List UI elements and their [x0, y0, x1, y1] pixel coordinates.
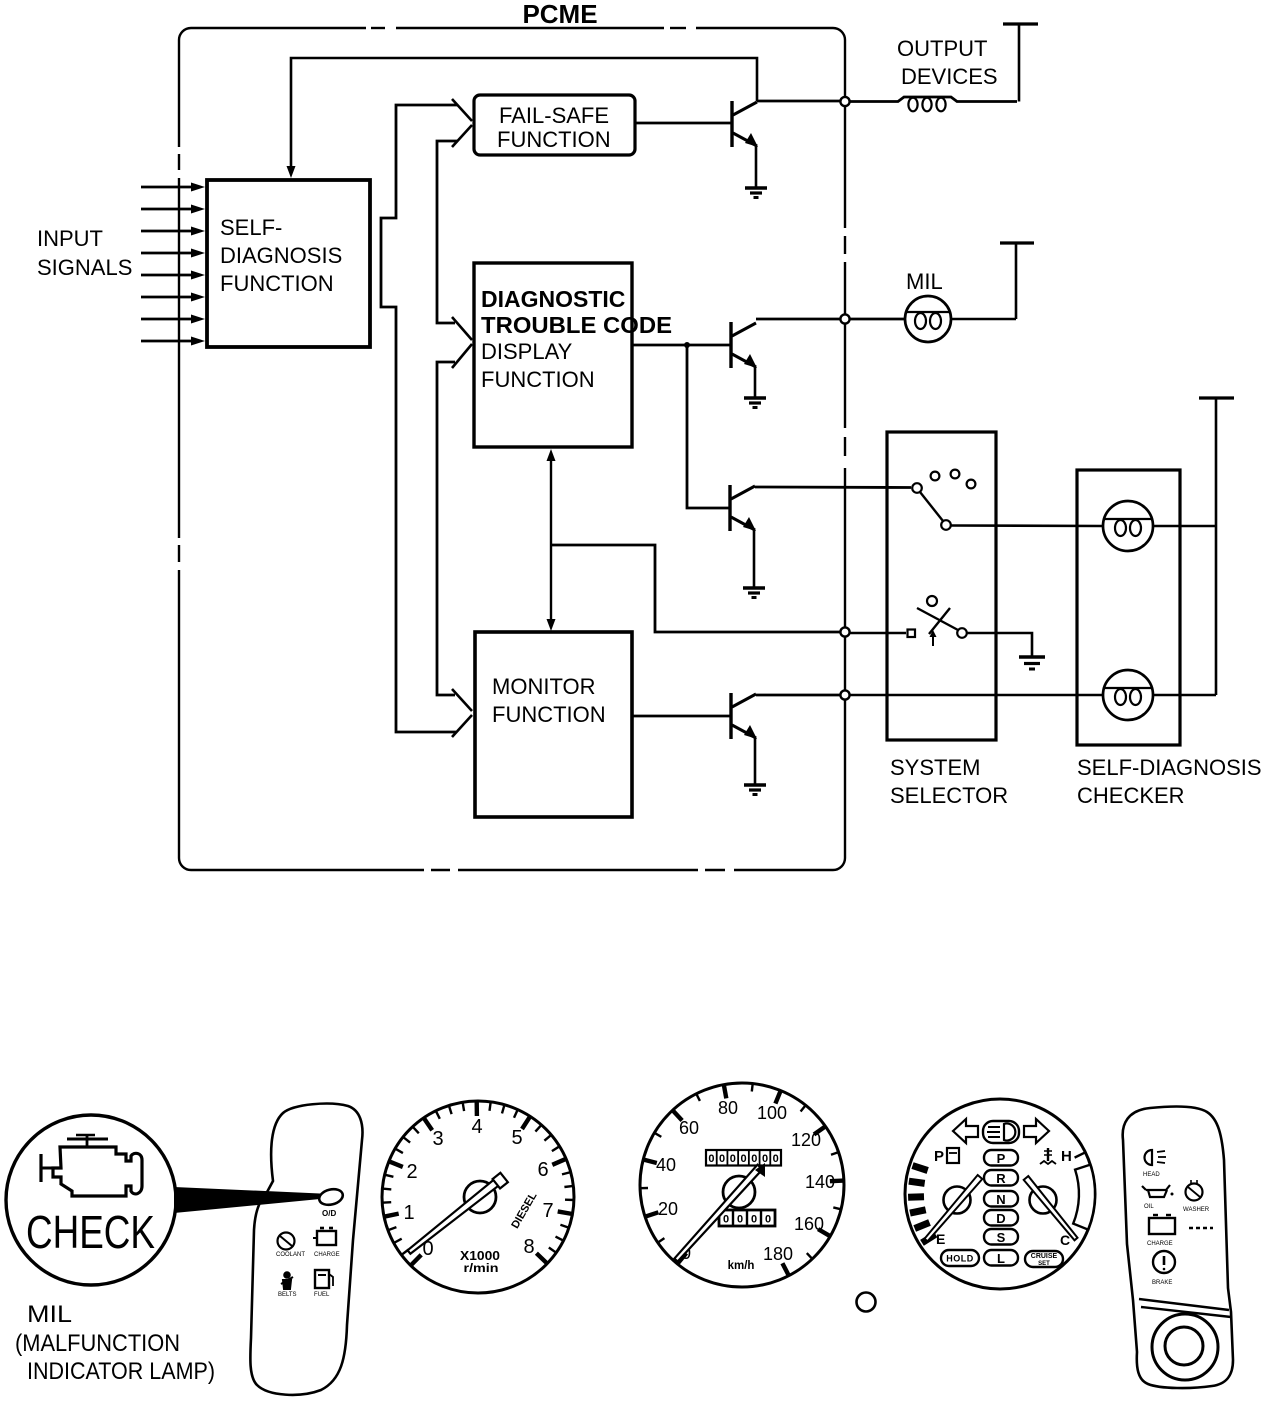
- svg-text:160: 160: [794, 1214, 824, 1234]
- speedometer hub and needle: [674, 1163, 765, 1262]
- small screw circle between gauges: [857, 1293, 876, 1312]
- svg-text:0: 0: [751, 1153, 757, 1165]
- svg-text:DIAGNOSIS: DIAGNOSIS: [220, 243, 342, 268]
- svg-text:20: 20: [658, 1199, 678, 1219]
- svg-text:O/D: O/D: [322, 1209, 336, 1218]
- divider lines on right panel: [1139, 1299, 1231, 1317]
- wire: branch from double-arrow line to selector switch S2: [551, 545, 840, 632]
- svg-text:CHARGE: CHARGE: [1147, 1241, 1173, 1247]
- wire: branch from Q2 base line down to Q3 base: [687, 345, 729, 508]
- svg-text:HOLD: HOLD: [946, 1254, 974, 1264]
- svg-text:TROUBLE CODE: TROUBLE CODE: [481, 312, 672, 338]
- warning icon: seat belt person (left panel): [278, 1272, 297, 1298]
- inductor: output device coil: [850, 97, 1017, 111]
- svg-text:2: 2: [406, 1161, 417, 1183]
- svg-text:PCME: PCME: [522, 0, 597, 29]
- svg-text:8: 8: [523, 1236, 534, 1258]
- power rail (self-diagnosis checker): [1199, 398, 1234, 695]
- block: MONITOR FUNCTION: [475, 632, 632, 817]
- wire: Q3 collector to selector switch S1 common: [755, 486, 911, 489]
- svg-text:BELTS: BELTS: [278, 1292, 297, 1298]
- right cluster panel outline: [1123, 1107, 1233, 1389]
- box: SELF-DIAGNOSIS CHECKER: [1077, 470, 1180, 745]
- svg-text:COOLANT: COOLANT: [276, 1252, 305, 1258]
- gear letter pills P R N D S L: [984, 1150, 1018, 1266]
- svg-text:SYSTEM: SYSTEM: [890, 755, 980, 780]
- cruise pill: [1025, 1251, 1063, 1267]
- temperature gauge arc band (right): [1073, 1152, 1095, 1229]
- switch S2 right contact: [957, 628, 967, 638]
- svg-text:P: P: [997, 1151, 1006, 1166]
- wire: MIL lamp to power rail: [951, 318, 1016, 321]
- svg-text:MONITOR: MONITOR: [492, 674, 595, 699]
- wire: DTC display output to Q2 base: [632, 344, 730, 347]
- transistor Q3 (system selector upper switch driver): [730, 485, 756, 588]
- svg-text:D: D: [996, 1211, 1005, 1226]
- node: output devices line crosses PCME boundary: [840, 97, 849, 106]
- open arrow into FAIL-SAFE FUNCTION: [452, 99, 472, 121]
- svg-text:INDICATOR LAMP): INDICATOR LAMP): [27, 1358, 215, 1385]
- wire: MONITOR FUNCTION output to Q4 base: [632, 715, 730, 718]
- svg-text:H: H: [1061, 1148, 1072, 1165]
- svg-text:180: 180: [763, 1244, 793, 1264]
- svg-text:140: 140: [805, 1172, 835, 1192]
- transistor Q1 (fail-safe output driver): [732, 101, 758, 188]
- wire: vertical bus B feeding fail-safe / DTC display arrows: [437, 141, 458, 695]
- svg-text:FUNCTION: FUNCTION: [497, 127, 611, 152]
- gear position indicator gauge: [905, 1099, 1095, 1289]
- svg-text:r/min: r/min: [464, 1261, 499, 1275]
- rheostat knob on right panel: [1152, 1314, 1218, 1380]
- turn arrow left (gear cluster): [953, 1119, 978, 1143]
- svg-text:FAIL-SAFE: FAIL-SAFE: [499, 103, 609, 128]
- ground (Q1 (fail-safe output driver) emitter): [745, 188, 767, 198]
- svg-text:0: 0: [719, 1153, 725, 1165]
- svg-text:120: 120: [791, 1130, 821, 1150]
- svg-text:0: 0: [740, 1153, 746, 1165]
- fuel gauge side: P and pump icon: [934, 1148, 959, 1165]
- MIL indicator callout circle: [6, 1115, 176, 1285]
- switch S1 selected contact: [941, 520, 951, 530]
- warning icon: brake (right panel): [1152, 1251, 1175, 1286]
- fuel gauge needle and hub: [925, 1175, 983, 1241]
- svg-text:OIL: OIL: [1144, 1204, 1154, 1210]
- warning icon: battery (left panel): [313, 1228, 340, 1258]
- warning icon: battery (right panel): [1147, 1215, 1175, 1247]
- wire: node to MIL lamp: [850, 318, 906, 321]
- left cluster panel outline: [250, 1104, 362, 1395]
- node: S2 line crosses PCME boundary: [840, 627, 849, 636]
- transistor Q2 (MIL driver): [731, 322, 757, 398]
- svg-text:0: 0: [751, 1214, 757, 1226]
- pointer wedge from callout to cluster lamp: [174, 1187, 320, 1213]
- svg-text:MIL: MIL: [906, 269, 943, 294]
- svg-text:SIGNALS: SIGNALS: [37, 255, 132, 280]
- svg-text:N: N: [996, 1192, 1005, 1207]
- switch S1 arm: [920, 492, 943, 521]
- speedometer gauge: [640, 1083, 844, 1287]
- block: DIAGNOSTIC TROUBLE CODE DISPLAY FUNCTION: [474, 263, 672, 447]
- svg-text:0: 0: [773, 1153, 779, 1165]
- temp gauge needle and hub: [1024, 1176, 1078, 1240]
- wire: node to S2 left contact: [850, 632, 906, 635]
- svg-text:HEAD: HEAD: [1143, 1172, 1160, 1178]
- svg-text:0: 0: [730, 1153, 736, 1165]
- wire: L2 to checker power rail: [1153, 694, 1216, 697]
- power rail (output devices): [1003, 24, 1038, 102]
- ground (Q2 (MIL driver) emitter): [744, 398, 766, 408]
- ground (selector switch S2): [1019, 657, 1045, 669]
- switch S2 actuation arrow: [930, 630, 937, 646]
- warning icon: fuel pump (left panel): [314, 1270, 333, 1298]
- SELF-DIAGNOSIS CHECKER label: [1077, 755, 1262, 808]
- dash marks (right panel): [1189, 1227, 1213, 1230]
- block: SELF-DIAGNOSIS FUNCTION: [207, 180, 370, 347]
- svg-text:100: 100: [757, 1103, 787, 1123]
- switch S2 left contact (square): [908, 630, 916, 638]
- wire: S2 to ground: [967, 633, 1032, 656]
- svg-text:SELECTOR: SELECTOR: [890, 783, 1008, 808]
- speedometer trip odometer: [719, 1210, 775, 1226]
- tachometer gauge: [382, 1101, 574, 1293]
- svg-text:DEVICES: DEVICES: [901, 64, 998, 89]
- speedometer odometer: [706, 1150, 781, 1166]
- MIL (MALFUNCTION INDICATOR LAMP) caption: [15, 1301, 215, 1385]
- junction on Q2 base line: [684, 342, 690, 348]
- svg-text:FUEL: FUEL: [314, 1292, 330, 1298]
- svg-text:CHECKER: CHECKER: [1077, 783, 1185, 808]
- svg-text:6: 6: [537, 1159, 548, 1181]
- temp gauge side: thermometer and H: [1040, 1148, 1072, 1165]
- svg-text:MIL: MIL: [27, 1301, 72, 1328]
- transistor Q4 (monitor output driver): [731, 693, 757, 785]
- headlight indicator (gear cluster): [983, 1121, 1019, 1143]
- svg-text:CHECK: CHECK: [26, 1206, 155, 1258]
- svg-text:7: 7: [542, 1200, 553, 1222]
- turn arrow right (gear cluster): [1024, 1119, 1049, 1143]
- wire: S1 to checker lamp L1: [951, 524, 1103, 527]
- open arrow into MONITOR FUNCTION: [452, 689, 472, 711]
- node: monitor line crosses PCME boundary: [840, 690, 849, 699]
- svg-text:BRAKE: BRAKE: [1152, 1280, 1172, 1286]
- switch S1 throw contacts: [931, 470, 976, 489]
- wire: feedback line from Q1 collector to self-diagnosis input (with down arrow): [287, 58, 758, 178]
- wire: vertical double-arrow between DTC display and monitor blocks: [547, 449, 556, 631]
- svg-text:4: 4: [471, 1116, 482, 1138]
- svg-text:60: 60: [679, 1118, 699, 1138]
- fuel gauge tick band (left arc): [908, 1166, 935, 1243]
- lamp: checker lamp L2: [1103, 670, 1153, 720]
- svg-text:S: S: [997, 1230, 1006, 1245]
- SYSTEM SELECTOR label: [890, 755, 1008, 808]
- wire: Q2 collector to MIL node: [756, 318, 843, 321]
- svg-text:(MALFUNCTION: (MALFUNCTION: [15, 1330, 180, 1357]
- svg-text:L: L: [997, 1251, 1005, 1266]
- svg-text:R: R: [996, 1171, 1006, 1186]
- box: SYSTEM SELECTOR: [887, 432, 996, 740]
- svg-text:FUNCTION: FUNCTION: [220, 271, 334, 296]
- svg-text:DIAGNOSTIC: DIAGNOSTIC: [481, 286, 625, 312]
- svg-text:CHARGE: CHARGE: [314, 1252, 340, 1258]
- svg-text:0: 0: [737, 1214, 743, 1226]
- lamp: MIL (malfunction indicator lamp): [905, 296, 951, 342]
- OUTPUT DEVICES label: [897, 36, 998, 89]
- svg-text:SELF-: SELF-: [220, 215, 282, 240]
- PCME boundary box (dash-dot border): [175, 24, 849, 874]
- power rail (MIL): [1000, 243, 1034, 319]
- svg-text:P: P: [934, 1148, 944, 1165]
- input signal arrows (8 wires into self-diagnosis function): [141, 183, 205, 346]
- wire: FAIL-SAFE output to Q1 base: [635, 122, 731, 125]
- wire: L1 to checker power rail: [1153, 525, 1216, 528]
- warning icon: oil (right panel): [1142, 1185, 1174, 1210]
- svg-text:40: 40: [656, 1155, 676, 1175]
- svg-text:FUNCTION: FUNCTION: [481, 367, 595, 392]
- ground (Q4 (monitor output driver) emitter): [744, 785, 766, 795]
- warning icon: washer (right panel): [1183, 1180, 1210, 1213]
- lamp: checker lamp L1: [1103, 501, 1153, 551]
- svg-text:INPUT: INPUT: [37, 226, 103, 251]
- cluster lamp (O/D) in left panel: [318, 1187, 345, 1218]
- block: FAIL-SAFE FUNCTION: [474, 95, 635, 155]
- svg-text:5: 5: [511, 1127, 522, 1149]
- warning icon: washer (left panel): [276, 1233, 305, 1259]
- switch S2 arm (crossed): [917, 608, 958, 634]
- svg-text:OUTPUT: OUTPUT: [897, 36, 987, 61]
- warning icon: headlight (right panel): [1143, 1150, 1166, 1178]
- svg-text:0: 0: [723, 1214, 729, 1226]
- INPUT SIGNALS label: [37, 226, 132, 280]
- HOLD pill: [941, 1250, 979, 1266]
- svg-text:3: 3: [432, 1128, 443, 1150]
- wire: node through system selector to checker lamp L2: [850, 694, 1103, 697]
- svg-text:80: 80: [718, 1098, 738, 1118]
- node: MIL line crosses PCME boundary: [840, 314, 849, 323]
- ground (Q3 (system selector upper switch driver) emitter): [743, 588, 765, 598]
- wire: Q1 collector to output-devices node: [757, 100, 843, 103]
- open arrow into DIAGNOSTIC TROUBLE CODE DISPLAY FUNCTION: [452, 317, 472, 340]
- svg-text:WASHER: WASHER: [1183, 1207, 1210, 1213]
- svg-text:E: E: [936, 1231, 945, 1247]
- svg-text:SELF-DIAGNOSIS: SELF-DIAGNOSIS: [1077, 755, 1262, 780]
- svg-text:0: 0: [765, 1214, 771, 1226]
- wire: vertical bus A feeding fail-safe and monitor arrows: [381, 105, 457, 732]
- svg-text:FUNCTION: FUNCTION: [492, 702, 606, 727]
- switch S2 upper contact: [927, 596, 937, 606]
- svg-text:SET: SET: [1038, 1261, 1050, 1267]
- svg-text:km/h: km/h: [728, 1260, 755, 1272]
- svg-text:DISPLAY: DISPLAY: [481, 339, 573, 364]
- switch S1 (test switch) common contact: [912, 483, 922, 493]
- engine pictogram inside callout: [41, 1135, 142, 1196]
- wire: Q4 collector to monitor node: [756, 694, 840, 697]
- svg-text:1: 1: [403, 1202, 414, 1224]
- svg-text:CRUISE: CRUISE: [1031, 1253, 1058, 1260]
- tachometer hub and needle: [408, 1173, 508, 1254]
- svg-text:0: 0: [708, 1153, 714, 1165]
